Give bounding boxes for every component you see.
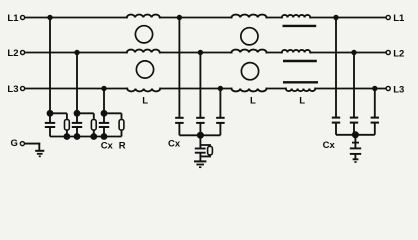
node junction dot L3/drop3 [101, 86, 106, 91]
resistor R 1 leads [66, 113, 68, 119]
wire T-bar RC pair 2 [77, 112, 94, 114]
inductor L (choke 2) winding L3 [232, 89, 267, 92]
capacitor Cx 1 lead top [49, 113, 51, 122]
wire L1 line input segment [25, 17, 127, 19]
choke 2 core circle upper [241, 28, 258, 45]
capacitor Cx 3 plates [99, 122, 109, 124]
resistor (middle ground, parallel) top hook [200, 145, 210, 146]
svg-text:L3: L3 [7, 84, 18, 95]
terminal L3 output [386, 86, 390, 90]
resistor R 3 body [119, 120, 124, 131]
inductor L (cored) winding L2 [282, 50, 311, 53]
wire drop from L3 to output Cx cap 3 [374, 89, 376, 118]
node T-junction dot pair 2 [75, 111, 80, 116]
capacitor Cx middle 1 lead bottom [178, 123, 180, 135]
node bus dot under R2 [91, 134, 96, 139]
svg-text:Cx: Cx [168, 139, 181, 150]
ground symbol output [353, 159, 359, 162]
capacitor Cx middle 3 lead bottom [219, 123, 221, 135]
inductor L (cored) winding L1 [282, 15, 311, 18]
capacitor Cx output 1 lead bottom [335, 123, 337, 135]
node junction dot L1/drop1 [47, 15, 52, 20]
terminal L3 input [21, 86, 25, 90]
cored inductor L1 core bar [283, 25, 317, 27]
wire middle star bus [179, 134, 220, 136]
wire output star bus [336, 134, 375, 136]
capacitor Cx middle 2 lead bottom [199, 123, 201, 135]
wire stem to middle ground symbol [199, 153, 201, 161]
svg-text:L1: L1 [393, 13, 405, 24]
resistor R 2 leads [93, 113, 95, 119]
capacitor Cx output 2 plates [350, 117, 358, 119]
resistor R 1 body [65, 120, 70, 131]
inductor L (cored) winding L3 [286, 89, 315, 92]
wire drop from L2 node to Cx/R bank 2 [76, 53, 78, 114]
node bus dot under C2 [75, 134, 80, 139]
terminal G [20, 142, 24, 146]
capacitor Cx 2 lead bottom [76, 127, 78, 137]
capacitor (output ground) plates [350, 147, 361, 149]
node junction dot L3/middle drop [218, 86, 223, 91]
terminal L2 output [386, 50, 390, 54]
wire drop from L3 to middle Cx cap 3 [219, 89, 221, 118]
wire stem to output ground cap [354, 135, 356, 148]
node junction dot L2/drop2 [74, 50, 79, 55]
wire L1 line output segment [310, 17, 385, 19]
wire stem to output ground symbol [354, 154, 356, 159]
resistor (middle ground) bottom hook [200, 155, 210, 157]
ground symbol middle [194, 161, 206, 167]
wire L3 line segment to third inductor [267, 88, 286, 90]
cored inductor L3 core bar [283, 81, 318, 83]
svg-text:Cx: Cx [323, 140, 336, 151]
svg-text:G: G [11, 138, 18, 149]
node junction dot L2/output drop [351, 50, 356, 55]
capacitor Cx 2 lead top [76, 113, 78, 122]
capacitor Cx output 1 plates [332, 117, 340, 119]
capacitor Cx 1 lead bottom [49, 127, 51, 137]
resistor R 2 body [91, 120, 96, 131]
node middle bus dot [198, 133, 203, 138]
wire drop from L3 node to Cx/R bank 3 [103, 89, 105, 114]
choke 1 core circle upper [135, 26, 152, 43]
capacitor Cx 3 lead bottom [103, 127, 105, 137]
terminal L1 output [386, 15, 390, 19]
terminal L1 input [21, 15, 25, 19]
wire from G terminal [25, 143, 39, 145]
capacitor Cx 1 plates [45, 122, 55, 124]
capacitor Cx output 3 lead bottom [374, 123, 376, 135]
inductor L (choke 2) winding L2 [232, 50, 267, 53]
inductor L (choke 1) winding L3 [127, 89, 160, 92]
capacitor (middle ground) plates [195, 148, 206, 150]
node T-junction dot pair 3 [102, 111, 107, 116]
node bus dot under R1 [64, 134, 69, 139]
node bus dot under C3 [102, 134, 107, 139]
inductor L (choke 2) winding L1 [232, 15, 267, 18]
node output stem T-bar [352, 142, 359, 144]
wire drop from L1 to output Cx cap 1 [335, 18, 337, 118]
svg-text:L: L [299, 95, 305, 106]
wire L3 line output segment [315, 88, 385, 90]
svg-text:L: L [142, 95, 148, 106]
wire L2 line input segment [25, 52, 127, 54]
capacitor Cx output 3 plates [371, 117, 379, 119]
wire T-bar RC pair 3 [104, 112, 122, 114]
wire L3 line middle segment [160, 88, 231, 90]
terminal L2 input [21, 50, 25, 54]
node output bus dot [353, 132, 358, 137]
svg-text:L2: L2 [7, 48, 18, 59]
wire L2 line middle segment [160, 52, 232, 54]
node junction dot L1/output drop [333, 15, 338, 20]
wire stem to middle ground cap [199, 135, 201, 148]
node T-junction dot pair 1 [48, 111, 53, 116]
inductor L (choke 1) winding L2 [127, 50, 160, 53]
wire drop from L2 to output Cx cap 2 [353, 53, 355, 118]
svg-text:L: L [250, 95, 256, 106]
wire L3 line input segment [25, 88, 127, 90]
ground symbol at G [35, 151, 44, 157]
node junction dot L3/output drop [372, 86, 377, 91]
capacitor Cx output 2 lead bottom [353, 123, 355, 135]
wire ground bus of input RC bank [50, 136, 122, 138]
wire L1 line middle segment [160, 17, 232, 19]
svg-text:L1: L1 [7, 13, 19, 24]
inductor L (choke 1) winding L1 [127, 15, 160, 18]
wire T-bar RC pair 1 [50, 112, 67, 114]
svg-text:Cx: Cx [101, 140, 114, 151]
capacitor Cx middle 1 plates [175, 117, 184, 119]
wire L2 line segment to third inductor [267, 52, 282, 54]
wire drop from L2 to middle Cx cap 2 [199, 53, 201, 118]
wire drop from L1 node to Cx/R bank 1 [49, 18, 51, 114]
wire drop from L1 to middle Cx cap 1 [178, 18, 180, 118]
cored inductor L2 core bar [283, 60, 317, 62]
capacitor Cx 3 lead top [103, 113, 105, 122]
wire L1 line segment to third inductor [267, 17, 282, 19]
choke 1 core circle lower [136, 61, 153, 78]
capacitor Cx 2 plates [72, 122, 82, 124]
choke 2 core circle lower [241, 63, 258, 80]
node junction dot L1/middle drop [177, 15, 182, 20]
svg-text:R: R [119, 140, 126, 151]
svg-text:L2: L2 [393, 49, 404, 60]
capacitor Cx middle 2 plates [196, 117, 205, 119]
resistor (middle ground) body [208, 146, 213, 155]
capacitor Cx middle 3 plates [216, 117, 225, 119]
svg-text:L3: L3 [393, 85, 404, 96]
node junction dot L2/middle drop [198, 50, 203, 55]
wire L2 line output segment [310, 52, 385, 54]
resistor R 3 leads [121, 113, 123, 119]
